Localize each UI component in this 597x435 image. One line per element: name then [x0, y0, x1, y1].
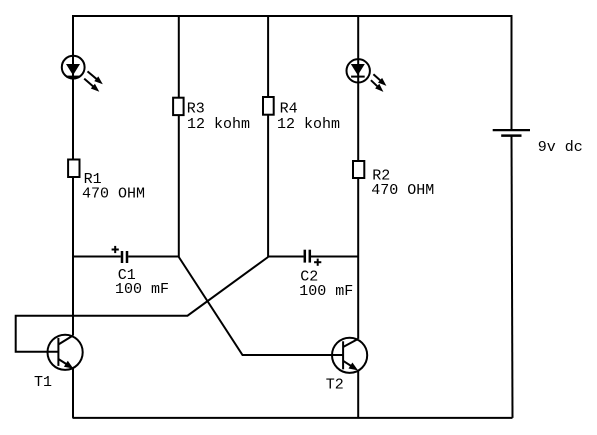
LED D1 light arrow 1: [88, 71, 103, 84]
svg-text:100 mF: 100 mF: [115, 281, 169, 298]
wire bottom rail (ground return bus): [73, 417, 513, 419]
LED D2 circle: [347, 59, 370, 82]
transistor T2 circle: [332, 338, 367, 373]
svg-text:T2: T2: [326, 377, 344, 394]
LED D1 light arrow 2: [84, 79, 99, 92]
capacitor C1 plates: [122, 251, 127, 263]
battery B1 negative short plate: [501, 134, 521, 137]
svg-text:T1: T1: [34, 374, 52, 391]
svg-text:12 kohm: 12 kohm: [187, 116, 250, 133]
transistor T1 base bar: [57, 338, 59, 366]
LED D2 light arrow 1: [373, 74, 386, 86]
transistor T1 collector stroke: [58, 336, 73, 345]
wire right-middle column upper (top rail through LED2 and R2 to T2 collector): [357, 16, 359, 339]
transistor T2 emitter stroke with arrow: [343, 361, 358, 371]
wire left column upper (top rail to LED1 and through R1 down to T1 collector): [72, 16, 74, 336]
transistor T1 circle: [48, 335, 83, 370]
svg-text:470 OHM: 470 OHM: [82, 186, 145, 203]
wire cross-couple diagonal from R4/C2 node to T1 base: [16, 257, 268, 352]
wire cross-couple diagonal from R3/C1 node to T2 base: [179, 257, 343, 355]
svg-text:9v dc: 9v dc: [538, 139, 583, 156]
wire C1 left segment (left column to C1 plate): [73, 256, 121, 258]
resistor R2 body: [353, 161, 364, 178]
svg-text:12 kohm: 12 kohm: [277, 116, 340, 133]
capacitor C2 plus polarity mark: [314, 259, 321, 266]
wire right-middle column lower (T2 emitter to bottom rail): [357, 371, 359, 418]
svg-text:470 OHM: 470 OHM: [371, 182, 434, 199]
wire C1 right segment (C1 plate to R3 node): [128, 256, 179, 258]
LED D1 circle: [62, 56, 85, 79]
capacitor C1 plus polarity mark: [112, 246, 119, 253]
wire left column lower (T1 emitter to bottom rail): [72, 368, 74, 418]
wire R4 column (top rail through R4 to node at C2): [267, 16, 269, 258]
LED D2 cathode bar: [351, 76, 365, 78]
resistor R1 body: [68, 160, 79, 178]
svg-text:100 mF: 100 mF: [299, 283, 353, 300]
svg-text:R3: R3: [187, 100, 205, 117]
transistor T1 emitter stroke with arrow: [58, 359, 73, 369]
capacitor C2 plates: [305, 250, 310, 263]
resistor R3 body: [173, 98, 184, 115]
wire C2 left segment (R4 node to C2 plate): [268, 256, 304, 258]
wire R3 column (top rail through R3 to node at C1): [178, 16, 180, 258]
LED D1 diode triangle: [66, 64, 80, 75]
LED D1 cathode bar: [66, 76, 80, 78]
resistor R4 body: [263, 97, 274, 115]
LED D2 diode triangle: [351, 64, 365, 75]
wire battery column lower (battery - plate to bottom rail): [512, 136, 513, 418]
wire C2 right segment (C2 plate to R2/T2 node): [311, 256, 358, 258]
transistor T2 collector stroke: [343, 339, 358, 347]
wire battery column upper (top rail to battery + plate): [511, 16, 513, 130]
transistor T2 base bar: [342, 341, 344, 369]
svg-text:R4: R4: [280, 100, 298, 117]
wire top rail (V+ bus): [72, 15, 513, 17]
LED D2 light arrow 2: [371, 80, 384, 92]
battery B1 positive long plate: [493, 129, 530, 131]
